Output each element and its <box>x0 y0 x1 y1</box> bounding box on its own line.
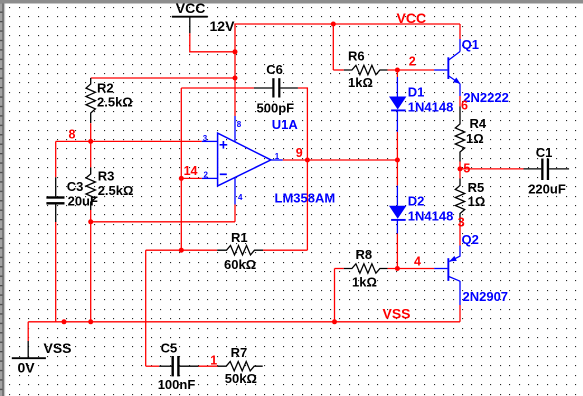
svg-text:0V: 0V <box>18 360 36 376</box>
svg-text:R5: R5 <box>468 180 485 195</box>
svg-text:C3: C3 <box>67 179 84 194</box>
wire VCC down to op-amp pin 8 <box>234 52 236 116</box>
wire VCC top rail <box>235 24 460 52</box>
svg-text:R6: R6 <box>348 49 365 64</box>
wire net 1 <box>199 365 218 367</box>
wire R2 top line <box>91 77 235 79</box>
svg-text:50kΩ: 50kΩ <box>225 371 257 386</box>
wire R2 bottom to node 8 <box>90 123 92 141</box>
wire R3 column to VSS rail <box>90 222 92 322</box>
svg-text:R4: R4 <box>470 116 487 131</box>
svg-text:Q1: Q1 <box>462 37 479 52</box>
diode D2 <box>389 186 453 234</box>
wire C6 left <box>181 87 254 89</box>
wire net 3 <box>459 222 461 246</box>
svg-text:LM358AM: LM358AM <box>275 190 336 205</box>
capacitor C3 <box>46 177 98 222</box>
junction VCC / R2 line <box>233 76 238 81</box>
capacitor C6 <box>254 62 298 116</box>
wire feedback column down to R1 <box>306 160 308 250</box>
svg-text:2N2907: 2N2907 <box>463 289 509 304</box>
svg-text:C1: C1 <box>536 145 553 160</box>
resistor R5 <box>455 179 485 223</box>
svg-text:2.5kΩ: 2.5kΩ <box>97 94 133 109</box>
svg-text:1: 1 <box>275 152 280 161</box>
junction R3 column / VSS rail <box>88 319 93 324</box>
svg-text:R3: R3 <box>98 169 115 184</box>
junction net2 / diode column <box>395 68 400 73</box>
resistor R7 <box>218 345 263 386</box>
junction net4 / diode column <box>395 266 400 271</box>
capacitor C5 <box>158 341 199 392</box>
op-amp pin 2 lead <box>202 177 218 179</box>
svg-text:1kΩ: 1kΩ <box>352 275 377 290</box>
wire D1 to D2 <box>396 132 398 186</box>
diode D1 <box>389 77 453 132</box>
svg-text:R7: R7 <box>231 345 248 360</box>
svg-text:C6: C6 <box>266 62 283 77</box>
transistor Q2 <box>434 232 508 305</box>
svg-text:D2: D2 <box>408 194 425 209</box>
svg-text:VCC: VCC <box>176 0 206 16</box>
junction output / C6-R1 column <box>305 158 310 163</box>
resistor R8 <box>344 247 388 290</box>
svg-text:1kΩ: 1kΩ <box>348 75 373 90</box>
wire net 6 <box>459 96 461 106</box>
svg-text:4: 4 <box>414 255 421 269</box>
wire net2 to D1 <box>396 70 398 77</box>
resistor R4 <box>455 106 487 161</box>
svg-text:Q2: Q2 <box>462 232 479 247</box>
svg-text:9: 9 <box>296 146 303 160</box>
capacitor C1 <box>524 145 570 197</box>
junction node 8 <box>88 139 93 144</box>
svg-text:2: 2 <box>204 170 209 179</box>
wire R8 line left corner <box>335 268 344 270</box>
power symbol VCC <box>172 0 208 33</box>
svg-text:VSS: VSS <box>44 340 72 356</box>
svg-text:2.5kΩ: 2.5kΩ <box>98 183 134 198</box>
wire op-amp output line <box>283 159 398 161</box>
svg-text:1: 1 <box>210 353 217 367</box>
wire R6 drop from VCC rail <box>332 24 334 70</box>
junction node 5 <box>458 166 463 171</box>
svg-text:VSS: VSS <box>383 306 411 322</box>
junction output / diode column <box>395 158 400 163</box>
op-amp pin 3 lead <box>202 140 218 142</box>
resistor R6 <box>333 49 387 91</box>
svg-text:2N2222: 2N2222 <box>463 90 509 105</box>
wire VCC to Q1 collector <box>459 24 461 39</box>
resistor R1 <box>217 230 263 272</box>
op-amp pin 1 lead <box>271 159 283 161</box>
svg-text:1N4148: 1N4148 <box>408 100 454 115</box>
wire net 2 <box>388 69 435 71</box>
svg-text:3: 3 <box>458 216 465 230</box>
wire node 14 vertical <box>180 88 182 250</box>
wire R8 drop <box>334 269 336 322</box>
wire op-amp pin 4 line <box>91 221 235 223</box>
wire net 5 <box>459 162 461 179</box>
svg-text:8: 8 <box>69 128 76 142</box>
svg-text:14: 14 <box>184 164 198 178</box>
wire C3 top <box>55 141 57 177</box>
op-amp pin 8 lead <box>234 116 236 142</box>
wire D2 to net 4 <box>396 234 398 269</box>
svg-text:C5: C5 <box>161 341 178 356</box>
svg-text:500pF: 500pF <box>257 101 295 116</box>
svg-text:1N4148: 1N4148 <box>408 209 454 224</box>
junction on VSS rail <box>62 319 67 324</box>
wire Q2 collector to VSS rail <box>459 305 461 322</box>
svg-text:6: 6 <box>461 99 468 113</box>
svg-text:60kΩ: 60kΩ <box>224 257 256 272</box>
svg-text:R1: R1 <box>231 230 248 245</box>
svg-text:8: 8 <box>237 120 242 129</box>
svg-text:VCC: VCC <box>397 10 427 26</box>
svg-text:4: 4 <box>238 193 243 202</box>
wire R3 bottom <box>90 210 92 222</box>
junction VCC rail / R6 drop <box>331 22 336 27</box>
op-amp pin 4 lead <box>234 178 236 205</box>
svg-text:12V: 12V <box>210 18 236 34</box>
wire VCC stub to rail <box>190 33 235 52</box>
svg-text:R2: R2 <box>97 81 114 96</box>
junction R3 / pin4 line <box>88 219 93 224</box>
resistor R2 <box>86 78 133 123</box>
svg-text:100nF: 100nF <box>158 377 196 392</box>
op-amp U1A <box>218 117 336 205</box>
svg-text:1Ω: 1Ω <box>468 194 486 209</box>
resistor R3 <box>86 141 133 210</box>
wire to C5 <box>146 365 160 367</box>
svg-text:D1: D1 <box>408 84 425 99</box>
svg-text:1Ω: 1Ω <box>466 131 484 146</box>
wire net 4 <box>388 268 435 270</box>
junction VSS rail / R8 drop <box>332 319 337 324</box>
junction node 14 <box>179 176 184 181</box>
wire VSS rail <box>28 321 460 323</box>
junction at 12V corner <box>233 49 238 54</box>
svg-text:R8: R8 <box>356 247 373 262</box>
wire node 5 to C1 <box>460 168 524 170</box>
wire C6 right down to output <box>298 88 308 160</box>
wire R1 right to feedback column <box>263 249 307 251</box>
svg-text:3: 3 <box>203 134 208 143</box>
wire C3 bottom to VSS rail <box>55 222 57 322</box>
wire node 14 to pin 2 <box>181 177 202 179</box>
svg-text:2: 2 <box>409 54 416 68</box>
svg-text:220uF: 220uF <box>528 181 566 196</box>
power symbol VSS <box>12 322 72 376</box>
wire R1 line left <box>146 249 218 251</box>
transistor Q1 <box>434 37 509 105</box>
svg-text:U1A: U1A <box>272 117 299 132</box>
junction R1 line / node14 column <box>179 248 184 253</box>
wire C5 drop column <box>145 250 147 366</box>
wire node 8 line <box>56 140 202 142</box>
svg-text:20uF: 20uF <box>68 193 98 208</box>
wire pin4 to corner <box>234 205 236 222</box>
